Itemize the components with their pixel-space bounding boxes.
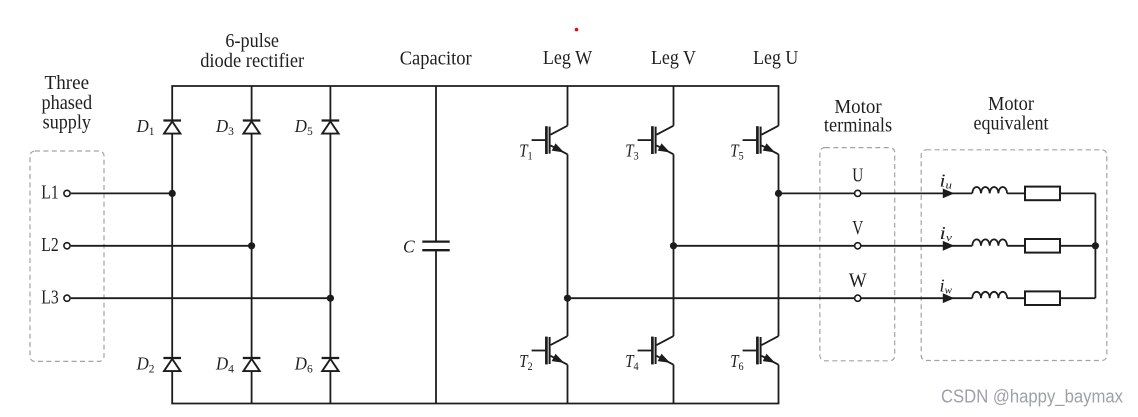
transistor T4 (IGBT): [638, 336, 674, 365]
svg-text:D6: D6: [294, 353, 313, 375]
wire: rectifier column 3 lower segment: [329, 371, 331, 403]
wire: leg U middle segment: [778, 154, 780, 336]
svg-text:U: U: [852, 166, 863, 187]
resistor phase W: [1025, 291, 1060, 305]
svg-text:T2: T2: [519, 351, 533, 373]
svg-text:D1: D1: [136, 116, 155, 138]
svg-text:T1: T1: [519, 141, 533, 163]
wire: L2 to rectifier: [71, 245, 252, 247]
wire: leg V bottom segment: [673, 365, 675, 404]
svg-text:T5: T5: [730, 141, 744, 163]
svg-text:Motor: Motor: [988, 94, 1035, 115]
junction node leg U phase tap: [775, 190, 782, 197]
svg-text:diode rectifier: diode rectifier: [200, 51, 304, 72]
junction node L1: [169, 190, 176, 197]
svg-text:T3: T3: [625, 141, 639, 163]
svg-text:D5: D5: [294, 116, 313, 138]
resistor phase V: [1025, 239, 1060, 253]
wire: L3 to rectifier: [71, 297, 331, 299]
wire: leg U bottom segment: [778, 365, 780, 404]
transistor T6 (IGBT): [743, 336, 779, 365]
label: Motor terminals: [824, 97, 892, 137]
transistor T2 (IGBT): [532, 336, 568, 365]
svg-text:iw: iw: [940, 275, 952, 296]
current arrow i_v: [943, 242, 953, 251]
wire: phase U line to motor: [779, 192, 973, 194]
svg-text:Leg W: Leg W: [543, 48, 593, 69]
svg-text:equivalent: equivalent: [974, 114, 1049, 135]
diode D2: [163, 358, 181, 371]
wire: leg U top segment: [778, 86, 780, 126]
junction node L3: [327, 295, 334, 302]
svg-text:L2: L2: [41, 235, 58, 256]
wire: phase W line to motor: [568, 297, 973, 299]
wire: leg V top segment: [673, 86, 675, 126]
wire: phase W inductor to resistor: [1007, 297, 1025, 299]
wire: leg W top segment: [567, 86, 569, 126]
wire: star point vertical: [1094, 193, 1096, 298]
wire: rectifier column 2 upper segment: [251, 86, 253, 121]
wire: capacitor column lower: [435, 250, 437, 403]
junction node leg W phase tap: [564, 295, 571, 302]
junction node star point: [1092, 242, 1099, 249]
wire: phase V resistor to star point: [1060, 245, 1095, 247]
diode D1: [163, 121, 181, 134]
diode D6: [322, 358, 340, 371]
svg-text:V: V: [852, 218, 863, 239]
wire: rectifier column 1 lower segment: [171, 371, 173, 403]
diode D3: [243, 121, 261, 134]
svg-text:6-pulse: 6-pulse: [225, 31, 279, 52]
motor terminal U (open circle): [855, 190, 861, 196]
inductor phase W: [972, 292, 1007, 298]
motor terminal V (open circle): [855, 243, 861, 249]
wire: phase V inductor to resistor: [1007, 245, 1025, 247]
wire: leg W bottom segment: [567, 365, 569, 404]
svg-text:supply: supply: [43, 113, 92, 134]
red marker dot: [575, 28, 579, 32]
inductor phase V: [972, 239, 1007, 245]
wire: phase V line to motor: [674, 245, 973, 247]
label: Three phased supply: [41, 73, 92, 134]
wire: rectifier column 2 lower segment: [251, 371, 253, 403]
current arrow i_u: [943, 189, 953, 198]
svg-text:L1: L1: [41, 183, 58, 204]
wire: rectifier column 3 middle segment: [329, 134, 331, 358]
label: Motor equivalent: [974, 94, 1049, 135]
terminal L2 (open circle): [64, 243, 70, 249]
label: 6-pulse diode rectifier: [200, 31, 304, 72]
svg-text:W: W: [849, 271, 868, 292]
terminal L3 (open circle): [64, 295, 70, 301]
wire: rectifier column 1 middle segment: [171, 134, 173, 358]
transistor T1 (IGBT): [532, 126, 568, 155]
wire: rectifier column 1 upper segment: [171, 86, 173, 121]
svg-text:terminals: terminals: [824, 116, 892, 137]
svg-text:D2: D2: [136, 353, 155, 375]
transistor T3 (IGBT): [638, 126, 674, 155]
wire: bottom DC bus: [171, 403, 779, 405]
diode D5: [322, 121, 340, 134]
dashed box: three phased supply: [30, 151, 104, 361]
svg-text:iv: iv: [940, 223, 953, 244]
inductor phase U: [972, 187, 1007, 193]
wire: phase U inductor to resistor: [1007, 192, 1025, 194]
wire: capacitor column upper: [435, 86, 437, 242]
svg-text:T4: T4: [625, 351, 639, 373]
motor terminal W (open circle): [855, 295, 861, 301]
svg-text:D3: D3: [215, 116, 234, 138]
resistor phase U: [1025, 187, 1060, 201]
wire: phase U resistor to star point: [1060, 192, 1095, 194]
wire: phase W resistor to star point: [1060, 297, 1095, 299]
dashed box: motor equivalent: [921, 150, 1107, 361]
wire: leg W middle segment: [567, 154, 569, 336]
svg-text:phased: phased: [41, 93, 92, 114]
wire: top DC bus: [171, 85, 779, 87]
wire: L1 to rectifier: [71, 192, 172, 194]
terminal L1 (open circle): [64, 190, 70, 196]
capacitor C: [422, 242, 449, 251]
svg-text:Capacitor: Capacitor: [400, 49, 472, 70]
svg-text:D4: D4: [215, 353, 234, 375]
transistor T5 (IGBT): [743, 126, 779, 155]
svg-text:Three: Three: [45, 73, 90, 94]
dashed box: motor terminals: [820, 148, 895, 361]
svg-text:iu: iu: [940, 171, 952, 192]
svg-text:C: C: [403, 237, 415, 257]
diode D4: [243, 358, 261, 371]
current arrow i_w: [943, 294, 953, 303]
junction node L2: [248, 242, 255, 249]
svg-text:L3: L3: [41, 287, 58, 308]
svg-text:T6: T6: [730, 351, 744, 373]
wire: rectifier column 2 middle segment: [251, 134, 253, 358]
svg-text:Leg V: Leg V: [651, 48, 696, 69]
wire: rectifier column 3 upper segment: [329, 86, 331, 121]
svg-text:CSDN @happy_baymax: CSDN @happy_baymax: [941, 386, 1124, 408]
wire: leg V middle segment: [673, 154, 675, 336]
junction node leg V phase tap: [670, 242, 677, 249]
svg-text:Leg U: Leg U: [753, 48, 798, 69]
